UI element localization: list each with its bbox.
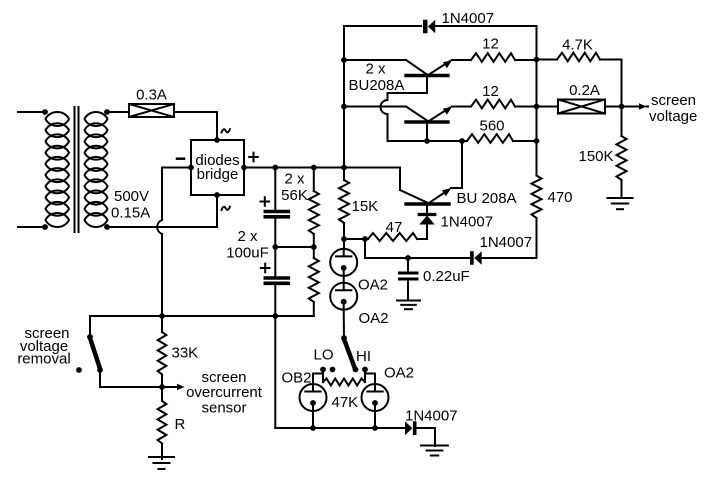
label BU 208A [457,190,517,207]
wire secondary to fuse [107,111,129,113]
diode D3 1N4007 [419,215,435,225]
label 1N4007 D1 [442,10,495,27]
label 1N4007 D4 [480,234,533,251]
wire R5 to bus [515,59,537,61]
ground R9 [149,457,174,469]
wire node to R4 [344,236,368,242]
label ~ top [222,129,230,132]
diode bridge U1 [188,137,247,198]
svg-text:sensor: sensor [201,400,246,417]
svg-text:1N4007: 1N4007 [442,10,495,27]
wire bus to F2 [537,106,559,108]
label OA2 V4 [384,365,414,382]
svg-text:HI: HI [356,348,371,365]
label + plus [249,153,258,162]
label 4.7K [562,37,593,54]
wire node to R9 [161,387,163,400]
label 33K [172,345,199,362]
label 500V 0.15A [111,188,150,222]
diode D5 1N4007 [405,421,417,435]
diode D1 1N4007 [423,20,435,34]
tube V4 OA2 [362,384,389,411]
label LO [313,347,333,364]
wire S2 HI branch [365,370,375,385]
resistor R5 12 [471,53,515,62]
wire rail to R1 [313,168,315,192]
wire bottom rail [90,313,314,319]
label screen voltage [649,92,697,125]
wire R1 to mid [313,234,315,247]
wire D5 to ground [417,428,436,446]
label OA2 V1 [358,277,388,294]
svg-text:500V: 500V [114,188,149,205]
svg-text:15K: 15K [352,198,379,215]
svg-text:LO: LO [313,347,333,364]
label 0.3A [136,87,167,104]
svg-text:47: 47 [386,219,403,236]
fuse F2 0.2A [558,100,605,114]
resistor R8 33K [158,332,167,375]
label 2 x 56K [281,171,308,205]
wire mains top [18,109,48,115]
label diodes bridge [195,152,239,183]
wire rail to C1 [274,168,276,211]
transformer T1 core [75,107,79,232]
label 12 R6 [482,83,499,100]
label screen voltage removal [17,325,70,368]
wire mid to R2 [313,247,315,258]
resistor R9 R [158,401,167,444]
wire D4 to 470 [482,257,537,259]
diode D4 1N4007 [470,251,482,265]
wire R12 to ground [621,180,623,198]
wire V3 to rail [312,411,314,428]
wire S2 LO branch [313,370,323,385]
resistor R10 47K [323,379,365,386]
wire node to V1 [343,239,345,250]
ground D5 [421,446,448,456]
wire R3 to node [341,223,347,242]
svg-text:bridge: bridge [197,166,239,183]
wire out to R12 [621,107,623,137]
svg-text:R: R [175,416,186,433]
svg-text:voltage: voltage [649,108,697,125]
label 0.22uF [423,268,470,285]
transistor Q2 BU208A [344,107,452,144]
wire top rail right [436,25,537,27]
label + C2 [261,264,270,273]
label HI [356,348,371,365]
wire bridge minus [157,168,191,317]
tube V1 OA2 [330,249,357,276]
resistor R12 150K [617,136,627,180]
label 470 [548,189,573,206]
capacitor C1 100uF [265,212,288,217]
transformer T1 primary winding [46,112,70,227]
wire mid rail [365,255,470,261]
svg-text:OA2: OA2 [359,310,389,327]
transistor Q1 BU208A [344,60,452,141]
wire node drop [364,239,366,258]
wire C2 to rail [274,247,276,316]
svg-text:overcurrent: overcurrent [186,384,263,401]
transistor Q3 BU208A [344,141,462,213]
resistor R6 12 [471,100,515,109]
label 12 R5 [482,36,499,53]
wire R4 to diode [417,226,427,240]
svg-text:100uF: 100uF [226,245,269,262]
label 0.2A [569,82,600,99]
svg-text:0.2A: 0.2A [569,82,600,99]
svg-text:OA2: OA2 [358,277,388,294]
wire rail to switch S1 [87,316,93,340]
label 560 [479,118,504,135]
wire R9 to ground [161,444,163,460]
svg-text:12: 12 [482,36,499,53]
resistor R13 470 [532,176,542,219]
label 2 x 100uF [226,228,269,262]
switch S2 contacts [320,367,368,373]
label OB2 [282,370,312,387]
svg-text:2 x: 2 x [365,61,386,78]
resistor R11 4.7K [557,53,600,62]
label 1N4007 D3 [441,214,494,231]
resistor R3 15K [339,180,349,223]
wire R6 to bus [515,106,537,108]
svg-text:BU208A: BU208A [349,77,405,94]
svg-text:470: 470 [548,189,573,206]
wire bus to R11 [537,59,558,61]
wire R13 to mid rail [536,218,538,258]
label OA2 V2 [359,310,389,327]
switch S2 arm [344,339,354,366]
svg-text:OB2: OB2 [282,370,312,387]
wire V1-V2 [343,276,345,283]
svg-text:OA2: OA2 [384,365,414,382]
label 2 x BU208A [349,61,405,95]
switch S1 arm [90,338,100,367]
resistor R7 560 [467,134,513,143]
svg-text:2 x: 2 x [237,228,258,245]
svg-text:12: 12 [482,83,499,100]
wire V2 to switch [343,310,345,338]
resistor R2 56K [309,258,319,302]
label + C1 [261,197,270,206]
ground R12 [608,198,633,209]
wire F2 to out [605,104,624,110]
ground C3 [397,301,420,310]
wire V4 to rail [374,411,376,428]
label - minus [177,157,184,160]
label 15K [352,198,379,215]
wire R2 to rail [313,302,315,316]
svg-text:screen: screen [651,92,696,109]
wire plus rail [244,165,347,171]
wire Q2 emitter [452,106,471,108]
svg-text:1N4007: 1N4007 [441,214,494,231]
svg-text:0.3A: 0.3A [136,87,167,104]
svg-text:0.15A: 0.15A [111,205,150,222]
label 150K [579,148,614,165]
wire Q1 emitter [452,59,471,61]
switch S2 pivot [341,335,347,341]
wire tube rail [275,425,405,431]
svg-text:0.22uF: 0.22uF [423,268,470,285]
svg-text:BU 208A: BU 208A [457,190,517,207]
wire fuse to bridge top [174,112,217,140]
svg-text:33K: 33K [172,345,199,362]
svg-text:removal: removal [17,351,70,368]
svg-text:56K: 56K [281,187,308,204]
resistor R4 47 [368,233,417,241]
transformer T1 secondary winding [85,109,110,230]
wire right bus [534,26,540,176]
wire cap drop [274,316,276,428]
label 1N4007 D5 [405,408,458,425]
wire rail to R3 [343,168,345,181]
capacitor C3 0.22uF [400,258,418,300]
svg-text:560: 560 [479,118,504,135]
svg-text:1N4007: 1N4007 [480,234,533,251]
switch S1 contacts [76,367,103,373]
wire R8 to node [159,375,165,390]
tube V2 OA2 [330,283,357,310]
label 47K [332,394,359,411]
wire S1 to sensor node [100,370,162,387]
wire left bus [341,26,347,168]
fuse F1 0.3A [129,104,174,117]
wire top rail left [344,25,421,27]
svg-text:47K: 47K [332,394,359,411]
capacitor C2 100uF [265,278,288,283]
wire rail to R8 [161,316,163,332]
resistor R1 56K [309,191,319,234]
tube V3 OB2 [300,384,327,411]
svg-text:2 x: 2 x [284,171,305,188]
wire R11 to out [600,60,622,107]
wire cap midpoint [275,244,316,250]
label ~ bottom [222,207,230,210]
svg-text:150K: 150K [579,148,614,165]
label 47 [386,219,403,236]
wire R7 wires [462,140,537,142]
wire C1 to mid [272,219,278,250]
svg-text:1N4007: 1N4007 [405,408,458,425]
wire bridge ac bottom [107,195,217,227]
arrow overcurrent [163,384,185,390]
wire collectors join [427,138,465,144]
arrow screen voltage [622,103,649,109]
label screen overcurrent sensor [186,369,263,417]
svg-text:4.7K: 4.7K [562,37,593,54]
label R [175,416,186,433]
wire mains bottom [18,224,48,230]
